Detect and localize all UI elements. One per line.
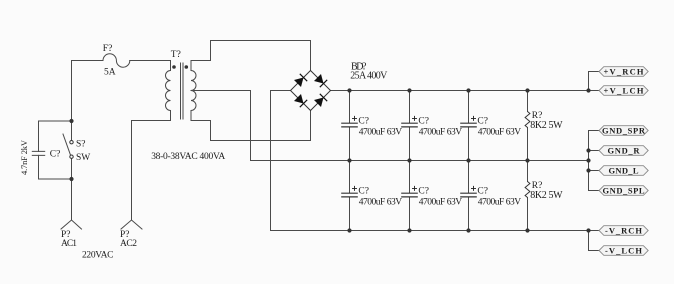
svg-text:S?: S?: [76, 140, 86, 150]
svg-text:AC2: AC2: [120, 239, 137, 249]
svg-text:+V_RCH: +V_RCH: [604, 66, 644, 76]
svg-text:8K2 5W: 8K2 5W: [530, 120, 563, 131]
svg-text:SW: SW: [76, 153, 90, 163]
svg-text:25A 400V: 25A 400V: [350, 71, 388, 82]
svg-text:C?: C?: [358, 117, 369, 127]
svg-text:GND_SPL: GND_SPL: [603, 185, 645, 195]
svg-text:-V_LCH: -V_LCH: [605, 245, 642, 255]
svg-text:AC1: AC1: [61, 239, 77, 249]
svg-text:-V_RCH: -V_RCH: [605, 225, 642, 235]
svg-text:C?: C?: [358, 187, 369, 197]
svg-text:8K2 5W: 8K2 5W: [530, 190, 563, 201]
svg-text:C?: C?: [418, 117, 429, 127]
svg-text:GND_L: GND_L: [609, 165, 639, 175]
svg-text:4700uF 63V: 4700uF 63V: [359, 128, 402, 138]
svg-text:C?: C?: [477, 117, 488, 127]
svg-text:GND_R: GND_R: [608, 145, 641, 155]
svg-text:C?: C?: [477, 187, 488, 197]
svg-text:+V_LCH: +V_LCH: [604, 85, 644, 95]
svg-text:4700uF 63V: 4700uF 63V: [359, 198, 402, 208]
svg-text:GND_SPR: GND_SPR: [602, 125, 646, 135]
svg-text:C?: C?: [418, 187, 429, 197]
svg-text:4700uF 63V: 4700uF 63V: [419, 128, 462, 138]
svg-text:C?: C?: [50, 150, 61, 160]
svg-text:5A: 5A: [104, 68, 116, 78]
svg-text:4.7nF 2kV: 4.7nF 2kV: [19, 139, 29, 175]
svg-text:4700uF 63V: 4700uF 63V: [478, 198, 521, 208]
svg-text:220VAC: 220VAC: [82, 250, 114, 260]
svg-text:4700uF 63V: 4700uF 63V: [478, 128, 521, 138]
svg-text:T?: T?: [171, 50, 181, 60]
svg-text:38-0-38VAC 400VA: 38-0-38VAC 400VA: [151, 152, 225, 162]
svg-text:4700uF 63V: 4700uF 63V: [419, 198, 462, 208]
svg-text:F?: F?: [103, 44, 113, 54]
